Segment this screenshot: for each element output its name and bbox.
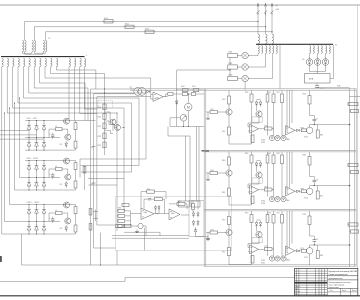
wires gate unit left links: [229, 58, 231, 65]
svg-text:DA2: DA2: [144, 211, 147, 214]
channel 2 op-amp DA6: [250, 185, 259, 194]
channel 1 resistor R56: [273, 91, 275, 95]
transformer T1 core bar: [1, 56, 85, 58]
wire op-amp output: [163, 96, 168, 98]
channel 1 output node wire to bus: [310, 124, 350, 126]
channel 2 resistor R66: [273, 152, 275, 156]
thyristor converter unit A1 frame: [130, 88, 356, 90]
fuse FU2: [125, 25, 134, 28]
svg-text:R62: R62: [222, 192, 225, 194]
channel divider 2: [204, 208, 356, 210]
thyristor VS2: [314, 59, 321, 66]
transformer T2 left secondary windings: [258, 46, 259, 54]
zener VD26: [194, 229, 196, 232]
choke L2: [266, 34, 268, 44]
interface box A2: [189, 201, 204, 237]
svg-text:VD61: VD61: [261, 263, 265, 265]
tachogenerator BR1: [180, 115, 187, 122]
channel 1 base resistor R51: [210, 111, 218, 114]
channel 3 diode VD37: [259, 223, 262, 226]
transformer T1 primary windings: [22, 41, 23, 52]
svg-text:R21: R21: [98, 116, 101, 118]
wires tachogenerator: [170, 117, 180, 119]
channel 1 resistor R58: [309, 91, 311, 96]
svg-text:R70: R70: [320, 196, 323, 198]
circuit breaker QF1 phase wires: [257, 3, 259, 34]
svg-text:KM1: KM1: [229, 51, 233, 53]
svg-text:БУВ: БУВ: [309, 79, 314, 81]
gate unit row KM2: [228, 65, 238, 69]
channel 1 emitter resistor R52: [228, 115, 230, 127]
svg-text:FU5: FU5: [192, 86, 195, 88]
channel 1 pulse output resistor R61: [348, 102, 358, 105]
drawing frame right border: [357, 5, 359, 269]
svg-text:C8: C8: [316, 180, 318, 182]
channel 2 resistor R67: [281, 152, 283, 156]
channel 3 resistor R76: [273, 211, 275, 215]
channel 3 capacitor C9: [310, 225, 315, 240]
title block header band: [295, 282, 328, 284]
svg-text:R79: R79: [301, 248, 304, 250]
wire gate row down to block: [244, 82, 246, 90]
op-amp DA3: [169, 209, 180, 220]
transistor VT4: [110, 119, 116, 125]
svg-text:VD55: VD55: [261, 142, 265, 144]
channel 3 ground: [207, 237, 209, 239]
channel 1 resistor R55: [251, 135, 254, 143]
channel 2 capacitor C8: [310, 165, 315, 180]
svg-text:C19: C19: [320, 88, 323, 90]
channel 3 output node wire to bus: [310, 244, 350, 246]
channel 2 feedback resistor R64: [265, 188, 273, 191]
svg-text:DA3: DA3: [171, 212, 174, 215]
wire between amplifiers: [162, 199, 164, 214]
channel 3 pulse transistor VT15: [307, 248, 313, 254]
svg-text:FU4: FU4: [181, 86, 184, 88]
channel 1 pulse output resistor R62: [351, 109, 359, 112]
wire bottom collector to block: [170, 126, 204, 128]
diode VD25: [197, 222, 199, 225]
wire fuse row: [177, 89, 183, 91]
channel 1 diode VD32: [255, 102, 258, 105]
svg-text:R80: R80: [320, 255, 323, 257]
svg-text:C7: C7: [316, 119, 318, 121]
fuse FU4: [182, 88, 188, 91]
feedback capacitor C5: [148, 197, 151, 199]
wires thyristors: [309, 53, 311, 58]
channel 1 pulse transistor VT13: [307, 127, 313, 133]
diode VD24: [192, 222, 194, 225]
channel 3 diode VD36: [255, 223, 258, 226]
wire block bottom to common rail: [22, 264, 205, 266]
channel 2 input resistor R60: [228, 152, 230, 158]
thyristor VS3: [322, 59, 329, 66]
channel 2 output wires: [348, 164, 350, 166]
svg-text:VD2 ... VD7: VD2 ... VD7: [27, 118, 38, 120]
diode VD22: [192, 213, 194, 216]
channel 2 transistor VT11: [256, 172, 262, 178]
channel 2 coupling wires: [286, 152, 288, 194]
svg-text:Карьерный экскаватор ЭКГ-8И: Карьерный экскаватор ЭКГ-8И: [329, 270, 358, 273]
channel 2 output node wire to bus: [310, 185, 350, 187]
wire amplifier A output bus: [76, 120, 96, 122]
wires from T1 secondaries down to rectifier blocks: [2, 67, 25, 234]
op-amp DA2: [141, 208, 154, 220]
resistor R37: [192, 204, 195, 210]
wires interface box: [192, 201, 194, 204]
channel 2 pulse output resistor R71: [348, 163, 358, 166]
wire T2 winding 4 down to unit: [279, 45, 281, 88]
svg-text:R61: R61: [211, 170, 214, 172]
motor M1: [185, 103, 192, 110]
channel 2 diode VD34: [255, 163, 258, 166]
diode VD21: [175, 101, 178, 104]
channel 1 indicator diodes VD53-VD55: [269, 135, 274, 140]
wires op-amp output row: [173, 93, 182, 95]
wire common rail lower: [0, 278, 294, 282]
wires cluster verticals: [143, 228, 145, 251]
svg-text:DA1: DA1: [156, 96, 160, 99]
connector marks left: [92, 146, 96, 148]
wire cluster to rail: [100, 233, 102, 266]
channel 2 diode VD35: [259, 163, 262, 166]
channel 1 transistor VT10: [256, 111, 262, 117]
cluster bottom bus wires: [112, 235, 189, 237]
channel 2 diode VD42: [296, 190, 299, 192]
channel 2 base resistor R61: [210, 172, 218, 175]
resistor R29: [122, 204, 129, 207]
terminal box X2: [191, 201, 200, 207]
svg-text:Масса: Масса: [342, 290, 346, 292]
svg-text:VD14 ... VD19: VD14 ... VD19: [27, 202, 41, 204]
regulator cluster frame: [116, 197, 232, 251]
channel 3 indicator diodes VD59-VD61: [269, 256, 274, 261]
svg-text:R68: R68: [303, 155, 306, 157]
channel 1 ground: [207, 116, 209, 118]
resistor R25: [168, 93, 173, 96]
transformer T2 core bar: [256, 43, 333, 45]
wires from T1 right secondaries to amplifier block: [68, 67, 70, 121]
svg-text:DA8: DA8: [286, 138, 289, 141]
channel 3 resistor R73: [251, 211, 253, 215]
svg-text:VD59: VD59: [261, 260, 265, 262]
svg-text:DA9: DA9: [286, 199, 289, 202]
svg-text:VD53: VD53: [261, 140, 265, 142]
svg-text:Пров.: Пров.: [295, 289, 299, 291]
wire rectifier C bottom to common: [21, 234, 23, 265]
channel 2 pulse transistor VT14: [307, 188, 313, 194]
svg-text:R22: R22: [98, 126, 101, 128]
amplifier cluster VT2: [64, 158, 70, 164]
gate unit row KM3: [228, 76, 238, 80]
sensor box dashed: [98, 101, 113, 109]
svg-text:C9: C9: [316, 239, 318, 241]
svg-text:R71: R71: [211, 230, 214, 232]
channel divider 1: [204, 149, 356, 151]
ground G2: [136, 230, 138, 232]
wires lower-left taps: [95, 210, 97, 222]
channel 3 output wires: [348, 224, 350, 226]
channel 1 capacitor C7: [310, 104, 315, 119]
control box A3: [305, 74, 331, 84]
channel 2 indicator diodes VD56-VD58: [269, 196, 274, 201]
svg-text:R30: R30: [118, 208, 121, 210]
fuse FU1: [104, 20, 113, 23]
right-side bus: [349, 97, 351, 268]
svg-text:R69: R69: [301, 188, 304, 190]
wire fan from T1 secondaries to control circuits: [7, 67, 117, 185]
transformer T2 right windings: [310, 46, 311, 54]
transformer T1 secondary windings: [2, 58, 3, 66]
channel 3 resistor R75: [251, 256, 254, 264]
channel 1 resistor R60: [317, 125, 319, 131]
relay row R38 K1: [116, 224, 123, 227]
wire op-amp input feed: [97, 97, 151, 225]
ground G1: [207, 237, 209, 239]
channel 1 op-amp DA5: [250, 124, 259, 133]
channel 1 diode VD33: [259, 102, 262, 105]
thyristor VS1: [306, 59, 313, 66]
diode VD23: [197, 213, 199, 216]
channel 1 transistor VT7: [228, 104, 230, 109]
svg-text:FU6: FU6: [337, 85, 340, 87]
channel 1 coupling wires: [286, 91, 288, 133]
svg-text:VD58: VD58: [261, 203, 265, 205]
svg-text:R60: R60: [222, 160, 225, 162]
fuse FU5: [193, 88, 199, 91]
channel 2 bottom wire: [229, 204, 252, 206]
svg-text:DA10: DA10: [286, 259, 290, 262]
left edge mark: [0, 256, 2, 262]
svg-text:R34: R34: [147, 189, 150, 191]
channel 2 resistor R65: [251, 196, 254, 204]
svg-text:Разраб.: Разраб.: [295, 286, 301, 288]
svg-text:R60: R60: [320, 135, 323, 137]
channel 1 resistor R53: [251, 91, 253, 95]
wire verticals into regulator cluster: [116, 185, 118, 231]
svg-text:VD56: VD56: [261, 201, 265, 203]
svg-text:R24: R24: [98, 145, 101, 147]
channel 2 ground: [207, 177, 209, 179]
svg-text:R57: R57: [277, 92, 280, 94]
junction dots on feed wires: [104, 89, 105, 90]
svg-text:Н.контр.: Н.контр.: [295, 291, 301, 293]
svg-text:R63: R63: [245, 153, 248, 155]
choke L1: [258, 34, 260, 44]
wires transistor links: [105, 112, 111, 122]
wire phase B feeder: [34, 27, 265, 41]
channel 2 pulse output resistor R72: [351, 170, 359, 173]
channel 1 output wires: [348, 103, 350, 105]
op-amp DA1: [153, 92, 163, 101]
wire long vertical to gate units: [177, 70, 230, 127]
channel 3 feedback resistor R74: [265, 248, 273, 251]
wire thyristor gate to block bottom: [309, 254, 311, 266]
resistor chain R20-R24: [104, 101, 106, 155]
channel 3 input resistor R70: [228, 211, 230, 217]
feedback resistor R35: [154, 198, 162, 201]
wires from left edge into rectifier A: [0, 130, 29, 132]
channel 2 transistor VT8: [228, 165, 230, 170]
channel 3 diode VD43: [296, 250, 299, 252]
svg-text:управлением: управлением: [329, 287, 340, 289]
svg-text:Схема электрическая: Схема электрическая: [329, 274, 348, 276]
optocoupler U1: [134, 88, 142, 96]
svg-text:принципиальная: принципиальная: [329, 278, 343, 280]
resistor R19: [89, 224, 92, 231]
T1 primary delta connection wires: [22, 52, 32, 54]
svg-text:R59: R59: [301, 127, 304, 129]
wire from control box to top-right bus: [317, 88, 360, 97]
amplifier cluster VT1: [64, 118, 70, 124]
choke L3: [272, 34, 274, 44]
junction dots feeders: [257, 21, 258, 22]
channel 2 resistor R69: [301, 190, 306, 193]
channel 3 pulse output resistor R82: [351, 230, 359, 233]
diodes VD27 VD28: [154, 207, 156, 209]
channel 1 resistor R57: [281, 91, 283, 95]
channel 1 feedback resistor R54: [265, 127, 273, 130]
channel 2 resistor R68: [309, 152, 311, 157]
svg-text:KM2: KM2: [229, 63, 233, 65]
channel 1 input resistor R50: [228, 91, 230, 97]
wires T2 left secondaries to gate units: [248, 53, 258, 55]
channel 3 coupling wires: [286, 211, 288, 253]
wires feedback network: [141, 191, 147, 193]
channel 1 diode VD41: [296, 129, 299, 131]
svg-text:R67: R67: [277, 153, 280, 155]
svg-text:R58: R58: [303, 94, 306, 96]
gate unit row KM1: [228, 53, 238, 57]
wire optocoupler cathode feed: [94, 94, 134, 248]
svg-text:R53: R53: [245, 92, 248, 94]
svg-text:R23: R23: [98, 136, 101, 138]
channel 3 resistor R77: [281, 211, 283, 215]
channel 3 op-amp DA7: [250, 245, 259, 254]
wire optocoupler anode feed: [91, 89, 134, 265]
title block: [295, 269, 358, 296]
svg-text:R51: R51: [211, 109, 214, 111]
junction mark at divider: [202, 150, 210, 152]
channel 2 resistor R73: [267, 152, 269, 156]
drawing frame bottom border: [0, 295, 360, 297]
channel 3 bottom wire: [229, 264, 252, 266]
channel 1 bottom wire: [229, 143, 252, 145]
channel 1 output op-amp DA8: [286, 126, 296, 136]
resistor stack R30-R33: [118, 209, 125, 212]
svg-text:R50: R50: [222, 99, 225, 101]
svg-text:VD8 ... VD13: VD8 ... VD13: [27, 158, 40, 160]
channel 2 resistor R70: [317, 186, 319, 192]
fuse FU3: [145, 30, 154, 33]
svg-text:VT14: VT14: [304, 198, 308, 200]
resistor R26: [182, 93, 187, 96]
svg-text:Масшт.: Масшт.: [352, 290, 357, 292]
svg-text:M: M: [187, 105, 190, 109]
svg-text:R78: R78: [303, 214, 306, 216]
resistor R36: [177, 202, 185, 205]
svg-text:R36: R36: [178, 201, 181, 203]
svg-text:R20: R20: [98, 107, 101, 109]
svg-text:a: a: [86, 55, 87, 57]
terminal box X1: [179, 201, 190, 207]
diode VD20: [147, 90, 150, 92]
resistor R27: [191, 93, 195, 96]
channel 1 resistor R59: [301, 129, 306, 132]
channel 1 resistor R63: [267, 91, 269, 95]
svg-text:VT13: VT13: [304, 137, 308, 139]
channel 3 output op-amp DA10: [286, 246, 296, 256]
svg-text:R73: R73: [245, 213, 248, 215]
wires staircase row drops: [79, 159, 81, 178]
channel 3 resistor R83: [267, 211, 269, 215]
channel 3 transistor VT9: [228, 225, 230, 230]
channel 3 resistor R79: [301, 249, 306, 252]
wire phase C feeder: [46, 32, 273, 41]
transistor VT5: [115, 125, 121, 131]
svg-text:R52: R52: [222, 131, 225, 133]
capacitor C19: [316, 83, 318, 86]
channel 2 output op-amp DA9: [286, 187, 296, 197]
channel 3 transistor VT12: [256, 231, 262, 237]
wire summing node: [130, 211, 132, 226]
channel 2 resistor R63: [251, 152, 253, 156]
wires motor: [187, 94, 189, 103]
channel 3 base resistor R71: [210, 231, 218, 234]
feedback resistor R34: [147, 190, 155, 193]
svg-text:R72: R72: [222, 252, 225, 254]
svg-text:R77: R77: [277, 213, 280, 215]
channel 3 resistor R80: [317, 245, 319, 251]
resistor R17: [83, 167, 86, 174]
channel 3 pulse output resistor R81: [348, 223, 358, 226]
drawing frame top border: [0, 4, 360, 6]
wire T2 bar right end down: [333, 45, 335, 79]
wire phase A feeder: [25, 21, 258, 40]
channel 3 resistor R78: [309, 211, 311, 216]
resistor R18: [89, 209, 92, 216]
svg-text:VT15: VT15: [304, 257, 308, 259]
svg-text:R70: R70: [222, 220, 225, 222]
svg-text:KM3: KM3: [229, 74, 233, 76]
channel 3 emitter resistor R72: [228, 236, 230, 248]
channel 2 emitter resistor R62: [228, 176, 230, 188]
wire DA2 to DA3: [154, 213, 169, 215]
wires motor area to interface box: [168, 127, 190, 137]
amplifier cluster VT3: [64, 202, 70, 208]
